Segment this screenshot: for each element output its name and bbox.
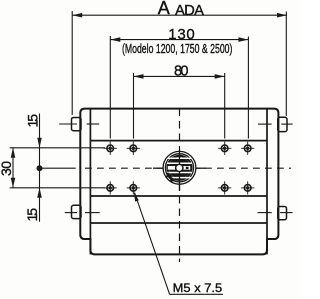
top-left lug (59, 118, 99, 131)
body band line top (90, 140, 267, 142)
label 80 (174, 63, 189, 79)
svg-text:(Modelo 1200, 1750 & 2500): (Modelo 1200, 1750 & 2500) (122, 41, 233, 56)
left dimension stack line (37, 114, 42, 222)
mounting hole M5 bottom row 1 (104, 181, 117, 194)
horizontal dashed centerline (42, 167, 291, 169)
extension line hole row bottom (10, 187, 105, 189)
bottom-left lug (65, 205, 100, 218)
body band line bottom (90, 195, 267, 197)
left end-cap line (89, 109, 91, 255)
svg-text:A: A (158, 0, 170, 18)
dimension 30 (11, 148, 16, 188)
mounting hole M5 top row 4 (241, 142, 254, 155)
dimension 130 (110, 36, 248, 139)
centerline junction dot (37, 165, 43, 171)
vertical dashed centerline (179, 109, 181, 263)
label 130 (168, 26, 195, 43)
svg-text:80: 80 (174, 63, 189, 79)
right end-cap line (266, 109, 268, 255)
svg-text:30: 30 (0, 161, 14, 176)
mounting hole M5 bottom row 2 (M5 x 7.5) (127, 181, 140, 194)
label 15 top (25, 114, 41, 128)
label 15 bottom (24, 208, 40, 222)
svg-text:15: 15 (25, 114, 41, 128)
top-right lug (258, 117, 293, 131)
mounting hole M5 bottom row 3 (218, 181, 231, 194)
bottom-right lug (258, 207, 293, 220)
label (Modelo 1200, 1750 & 2500) (122, 41, 233, 56)
extension line hole row top (10, 147, 105, 149)
mounting hole M5 top row 1 (104, 142, 117, 155)
actuator body outline (80, 109, 278, 255)
mounting hole M5 bottom row 4 (241, 181, 254, 194)
label M5 x 7.5 (173, 281, 223, 295)
central pinion shaft indicator (153, 150, 206, 191)
svg-text:ADA: ADA (175, 3, 204, 19)
dimension A ADA (overall width) (72, 11, 287, 116)
body lower line (90, 222, 267, 224)
mounting hole M5 top row 3 (218, 142, 231, 155)
leader M5 x 7.5 (134, 192, 223, 294)
label 30 (0, 161, 14, 176)
mounting hole M5 top row 2 (127, 142, 140, 155)
label A ADA (158, 0, 204, 19)
dimension 80 (134, 73, 225, 139)
svg-text:15: 15 (24, 208, 40, 222)
svg-text:M5 x 7.5: M5 x 7.5 (173, 281, 223, 295)
